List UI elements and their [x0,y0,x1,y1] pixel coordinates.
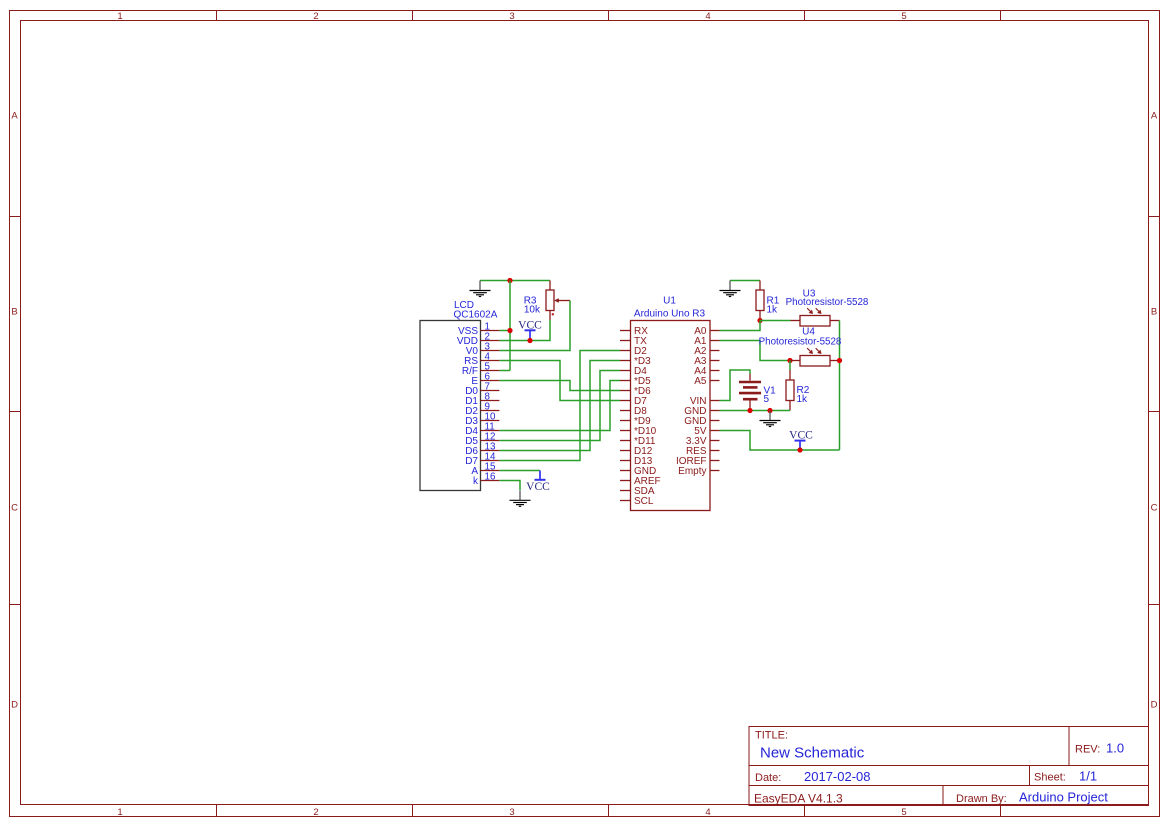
svg-text:5: 5 [901,807,906,818]
U1 right pin A1 [694,336,719,347]
svg-text:1k: 1k [767,305,779,316]
svg-text:C: C [1151,502,1158,513]
wire VDD net [499,320,550,341]
node junction ground tap [767,408,772,413]
node junction VSS [507,328,512,333]
LCD pin 14 (D7) [465,452,499,468]
LCD pin 13 (D6) [465,442,499,458]
svg-text:1: 1 [117,807,122,818]
wire LCD A pin to VCC [499,470,540,472]
svg-text:1/1: 1/1 [1079,769,1097,784]
U1 left pin GND [620,466,656,477]
svg-text:Arduino Uno R3: Arduino Uno R3 [634,309,706,320]
U1 left pin D13 [620,456,653,467]
U1 left pin *D11 [620,436,656,447]
wire E to *D6 [499,381,620,391]
U1 left pin *D6 [620,386,651,397]
U1 left pin D4 [620,366,647,377]
wire D2 to LCD D7 [499,351,620,461]
svg-text:2: 2 [313,807,318,818]
U1 right pin IOREF [676,456,720,467]
U1 right pin A0 [694,326,719,337]
node junction (510,280.5) [507,278,512,283]
U1 right pin A2 [694,346,719,357]
wire *D3 to LCD D6 [499,361,620,451]
wire 5V net [720,431,840,451]
title block [749,727,1149,806]
frame column ticks [217,11,1001,817]
svg-text:TITLE:: TITLE: [755,730,788,742]
LCD pin 10 (D3) [465,412,499,428]
svg-text:10k: 10k [524,305,541,316]
LCD pin 12 (D5) [465,432,499,448]
wire U4 to R2 [789,361,791,371]
svg-text:A: A [1151,110,1158,121]
U1 left pin *D10 [620,426,657,437]
node junction VCC/VDD [527,338,532,343]
svg-text:A5: A5 [694,376,707,387]
svg-text:Sheet:: Sheet: [1034,772,1066,784]
LCD pin 5 (R/F) [462,362,500,378]
svg-text:B: B [1151,306,1157,317]
svg-text:D: D [1151,699,1158,710]
U1 right pin 3.3V [686,436,720,447]
U1 left pin *D5 [620,376,651,387]
U1 right pin Empty [678,466,719,477]
svg-text:VCC: VCC [518,319,542,331]
svg-text:New Schematic: New Schematic [760,745,865,762]
U1 right pin RES [686,446,720,457]
svg-text:SCL: SCL [634,496,654,507]
power flag VCC (LCD backlight, flipped) [526,471,550,493]
LCD pin 4 (RS) [464,352,499,368]
LCD pin 15 (A) [471,462,499,478]
U1 left pin TX [620,336,647,347]
svg-text:4: 4 [705,11,710,22]
svg-text:REV:: REV: [1075,744,1100,756]
wire A1 to U4 [720,341,791,361]
LCD pin 7 (D0) [465,382,499,398]
svg-text:EasyEDA V4.1.3: EasyEDA V4.1.3 [754,792,843,806]
LCD pin 16 (k) [473,472,499,488]
U1 left pin AREF [620,476,661,487]
wire G2 to R1 top [730,280,760,282]
svg-text:Empty: Empty [678,466,706,477]
LCD pin 3 (V0) [466,342,500,358]
ground G4 [760,411,781,427]
svg-text:16: 16 [485,472,496,483]
U1 left pin D2 [620,346,647,357]
svg-text:1: 1 [117,11,122,22]
power flag VCC (top) [518,319,542,340]
wire V0 to R3 wiper [499,301,570,351]
U1 left pin D8 [620,406,647,417]
ground G1 top-left [470,281,491,297]
LCD QC1602A body [420,321,481,491]
wire top junction horizontal [480,280,550,282]
wire U3 right vertical [839,321,841,451]
U1 left pin D12 [620,446,653,457]
svg-text:5: 5 [901,11,906,22]
U1 right pin 5V [694,426,719,437]
svg-text:U1: U1 [663,296,676,307]
photoresistor U3 Photoresistor-5528 [791,308,840,326]
frame column numbers [117,11,906,818]
LCD pin 8 (D1) [465,392,499,408]
svg-text:Photoresistor-5528: Photoresistor-5528 [759,337,842,348]
power flag VCC (right) [789,430,813,450]
wire junction to U3 [760,320,791,322]
wire vertical VSS/RF net [509,281,511,371]
svg-text:3: 3 [509,807,514,818]
LCD pin 2 (VDD) [457,332,500,348]
node junction A1/U4/R2 [787,358,792,363]
resistor R2 1k [786,370,794,411]
U1 left pin RX [620,326,648,337]
svg-text:C: C [11,502,18,513]
wire A0 [720,321,761,331]
svg-text:1.0: 1.0 [1106,741,1124,756]
U1 left pin D7 [620,396,647,407]
svg-text:QC1602A: QC1602A [454,310,498,321]
U1 left pin *D9 [620,416,651,427]
ground G3 below LCD [510,490,531,506]
svg-text:1k: 1k [797,394,809,405]
svg-text:Date:: Date: [755,772,781,784]
wire *D5 to LCD D4 [499,381,620,431]
U1 right pin GND [684,406,719,417]
wire R/F pin5 [499,370,510,372]
U1 left pin SDA [620,486,655,497]
IC U1 Arduino Uno R3 body [631,321,711,511]
wire GND net [720,410,791,412]
svg-text:Arduino Project: Arduino Project [1019,790,1108,805]
wire VSS pin1 [499,330,510,332]
svg-text:D: D [11,699,18,710]
ground G2 top-right [720,281,741,297]
svg-text:4: 4 [705,807,710,818]
U1 left pin SCL [620,496,654,507]
U1 right pin GND [684,416,719,427]
battery V1 5 [739,374,761,411]
svg-text:Photoresistor-5528: Photoresistor-5528 [786,297,869,308]
svg-text:A: A [11,110,18,121]
LCD pin 11 (D4) [465,422,499,438]
frame row letters [11,110,1158,710]
U1 right pin VIN [690,396,720,407]
LCD pin 1 (VSS) [458,322,499,338]
frame row ticks [10,217,1160,605]
U1 right pin A4 [694,366,719,377]
svg-text:2017-02-08: 2017-02-08 [804,769,871,784]
resistor R3 10k potentiometer [546,281,570,321]
node junction U4 right [837,358,842,363]
wire LCD k pin to ground [499,481,520,491]
LCD pin 9 (D2) [465,402,499,418]
U1 left pin *D3 [620,356,651,367]
svg-text:VCC: VCC [789,430,813,442]
wire D4 to LCD D5 [499,371,620,441]
svg-text:2: 2 [313,11,318,22]
U1 right pin A5 [694,376,719,387]
photoresistor U4 Photoresistor-5528 [790,348,840,366]
svg-text:Drawn By:: Drawn By: [956,793,1007,805]
svg-text:B: B [11,306,17,317]
svg-text:5: 5 [764,394,770,405]
svg-text:3: 3 [509,11,514,22]
node junction VCC/5V [797,447,802,452]
U1 right pin A3 [694,356,719,367]
LCD pin 6 (E) [471,372,499,388]
wire VIN to battery [720,370,751,401]
svg-text:VCC: VCC [526,481,550,493]
node junction battery minus [747,408,752,413]
resistor R1 1k [756,281,764,321]
node junction R1/A0/U3 [757,318,762,323]
wire RS to D7 [499,361,620,401]
